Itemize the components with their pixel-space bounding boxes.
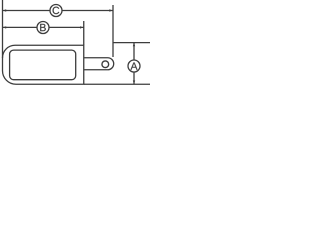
wire dimension line B right segment [49,26,84,28]
label A [131,62,138,69]
node A [128,60,140,72]
wire A top extension line [113,42,150,44]
label B [40,24,46,31]
wire dimension line A top segment [133,43,135,60]
blade hole [102,61,109,68]
wire left extension line [2,0,4,58]
arrowhead C right [109,9,112,11]
adapter inner face [10,50,76,80]
arrowhead A bottom [133,81,135,84]
wire dimension line B left segment [3,26,37,28]
arrowhead B left [3,26,6,28]
node B [37,22,49,34]
wire dimension line C left segment [3,10,50,12]
adapter body outline [3,45,84,84]
wire B right extension line [83,21,85,45]
wire C right extension line [112,5,114,57]
node C [50,5,62,17]
wire dimension line A bottom segment [133,72,135,84]
wire A bottom extension line [84,83,150,85]
arrowhead B right [80,26,83,28]
label C [53,7,60,14]
arrowhead C left [3,9,6,11]
wire dimension line C right segment [63,10,114,12]
plug blade [84,58,114,70]
arrowhead A top [133,43,135,46]
